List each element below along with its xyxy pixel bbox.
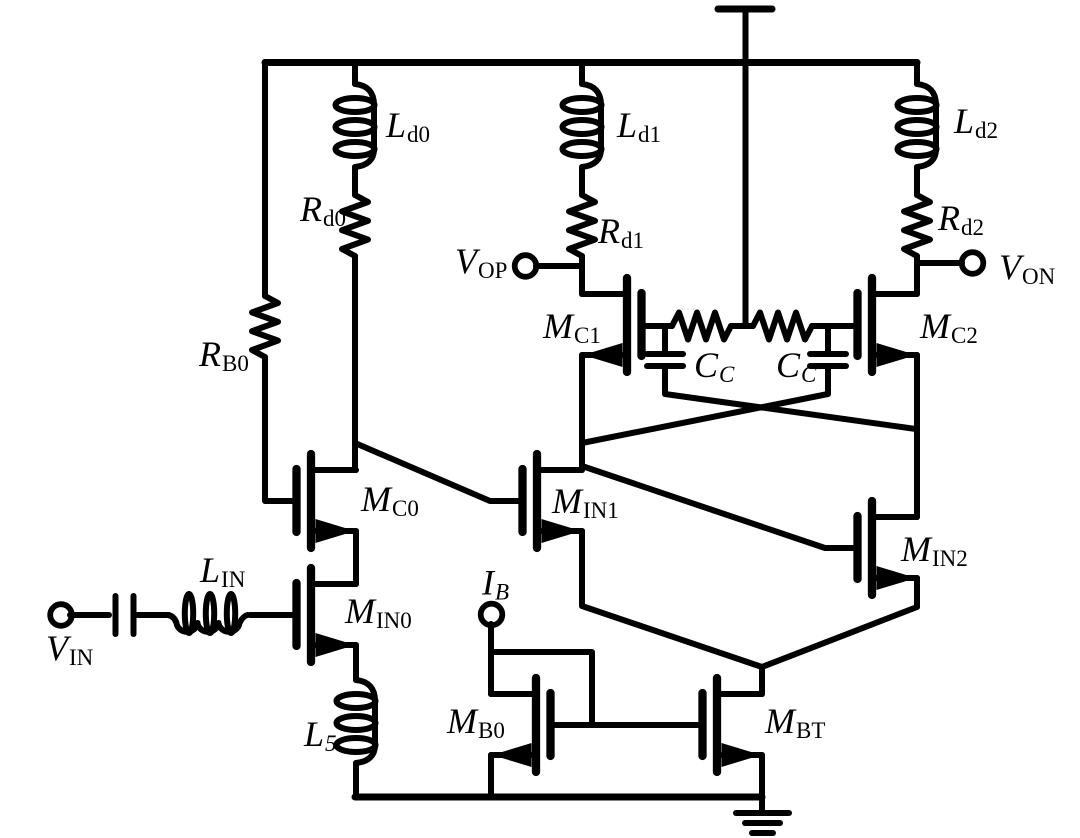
svg-text:Ld0: Ld0 [385,105,430,147]
inductor LIN [168,615,248,632]
capacitor CC left [647,351,683,357]
wire L5 to ground rail [353,763,359,797]
terminal VOP [515,255,537,277]
wire bottom rail [355,794,762,801]
wire Ld1 to Rd1 [579,167,585,195]
wire top VDD rail [265,59,917,66]
wire rail to Ld1 [579,62,585,84]
wire VDD stem to gate-resistor midpoint [743,62,749,326]
wire rail to Ld0 [352,62,358,84]
wire to MC2 gate [812,323,853,329]
wire IB tap to gates [491,652,592,725]
wire MIN1 drain to MIN2 gate [582,466,853,548]
wire between gate resistors [731,323,753,329]
transistor MIN0 [307,568,315,662]
svg-text:Rd1: Rd1 [597,211,644,253]
wire VIN to capacitor [70,612,109,618]
terminal IB [481,604,503,626]
resistor CC-gate left [672,313,731,340]
svg-text:MIN0: MIN0 [344,591,412,633]
wire tail to MBT drain [759,667,765,694]
wire MC0 drain to MIN1 gate [355,443,518,501]
resistor RB0 [252,296,278,357]
inductor Ld1 [582,84,601,167]
wire MC1 source to MIN1 drain [579,355,585,470]
svg-text:CC: CC [694,345,735,387]
wire MC2 source to MIN2 drain [914,355,920,517]
wire RB0 to MC0 gate [265,357,292,501]
wire Rd1 to MC1 drain [579,256,585,294]
inductor Ld2 [917,84,936,167]
terminal VIN [50,604,72,626]
svg-text:Rd2: Rd2 [937,198,984,240]
capacitor CC right [810,351,846,357]
transistor MIN2 [868,501,876,595]
svg-text:MBT: MBT [764,701,825,743]
svg-text:Rd0: Rd0 [299,189,346,231]
resistor Rd0 [342,195,368,256]
power VDD symbol [718,6,772,13]
svg-text:IB: IB [481,563,509,605]
svg-text:MC0: MC0 [360,479,419,521]
transistor MIN1 [533,454,541,548]
wire LIN to MIN0 gate [250,612,292,618]
wire MB0 gate to MBT gate [555,722,698,728]
transistor MBT [713,678,721,772]
wire MIN0 source to L5 [353,645,359,680]
wire Ld2 to Rd2 [914,167,920,195]
svg-text:MIN1: MIN1 [551,481,619,523]
transistor MC1 [623,278,631,372]
svg-text:Ld2: Ld2 [953,101,998,143]
resistor CC-gate right [753,313,812,340]
wire Rd0 to MC0 drain [352,256,358,470]
ground [759,797,765,813]
svg-text:Ld1: Ld1 [616,105,661,147]
wire MC1 gate run [646,323,672,329]
wire Rd2 to MC2 drain [914,256,920,294]
wire MIN1 source to tail [582,531,762,667]
wire column to VON [917,260,962,266]
capacitor input DC-block [113,596,119,634]
transistor MB0 [532,678,540,772]
wire left column from rail to RB0 [262,62,268,296]
wire MB0 source to rail [488,755,494,797]
wire rail to Ld2 [914,62,920,84]
svg-text:VOP: VOP [455,241,507,283]
inductor Ld0 [355,84,374,167]
wire CC left to MIN2 drain (cross-couple) [665,367,916,429]
resistor Rd1 [569,195,595,256]
svg-text:VON: VON [999,247,1056,289]
transistor MC0 [307,454,315,548]
transistor MC2 [868,278,876,372]
wire gate run to CC left [662,326,668,352]
wire MBT source to ground [759,755,765,797]
svg-text:RB0: RB0 [198,334,249,376]
svg-text:MC2: MC2 [919,306,978,348]
wire capacitor to LIN [137,612,169,618]
wire MIN2 source to tail [762,578,917,667]
svg-text:L5: L5 [303,714,337,756]
wire Ld0 to Rd0 [352,167,358,195]
wire CC right to MIN1 drain (cross-couple) [582,367,828,443]
svg-text:VIN: VIN [46,628,94,670]
svg-text:MC1: MC1 [542,306,601,348]
wire VOP to column [536,263,582,269]
svg-text:MIN2: MIN2 [900,529,968,571]
wire MC0 source to MIN0 drain [353,531,359,584]
svg-text:LIN: LIN [199,550,246,592]
wire gate run to CC right [825,326,831,352]
resistor Rd2 [904,195,930,256]
wire IB to MB0 drain [488,624,494,694]
inductor L5 [356,680,375,763]
svg-text:MB0: MB0 [446,701,505,743]
terminal VON [962,252,984,274]
